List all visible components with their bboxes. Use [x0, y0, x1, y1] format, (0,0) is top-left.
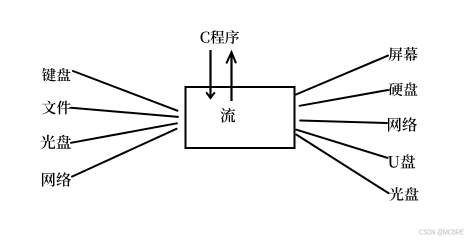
svg-text:CSDN @MCBRE: CSDN @MCBRE: [419, 230, 464, 237]
